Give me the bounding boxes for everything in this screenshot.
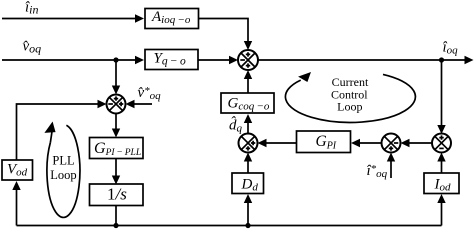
wire i*_oq into S3 bottom [390, 160, 392, 178]
summer S2 [239, 134, 258, 153]
node junction dot bottom-left [113, 223, 118, 228]
wire v_oq junction down to summer S5 top [115, 60, 117, 87]
node junction dot bottom-middle [245, 223, 250, 228]
block Y_q-o [145, 50, 198, 70]
wire A_ioq-o to summer S1 top [199, 19, 249, 43]
svg-text:îin: îin [25, 0, 39, 17]
block G_PI [297, 131, 351, 153]
block 1/s [90, 184, 144, 206]
wire S4 to summer S3 [409, 142, 433, 144]
block G_PI-PLL [90, 138, 144, 159]
wire Y_q-o to summer S1 left [198, 59, 230, 61]
wire bus up into D_d bottom [247, 202, 249, 226]
block I_od [424, 173, 459, 194]
wire G_PI to summer S2 right [266, 142, 297, 144]
wire D_d up into S2 bottom [247, 160, 249, 173]
wire V_od feedback to S5 left [17, 104, 99, 160]
summer S4 [432, 134, 451, 153]
wire G_PI-PLL to 1/s [115, 159, 117, 177]
block D_d [232, 173, 264, 194]
wire I_od up into S4 bottom [441, 160, 443, 173]
wire v_oq input line [2, 59, 136, 61]
wire G_coq-o to S1 bottom [247, 78, 249, 93]
wire i_oq down to summer S4 top [441, 60, 443, 126]
wire S1 to output i_oq [258, 59, 466, 61]
annotation PLL loop arrow [44, 120, 80, 217]
svg-text:Loop: Loop [50, 168, 76, 182]
annotation current control loop arrow [285, 69, 415, 123]
wire bus up into V_od bottom [16, 189, 18, 226]
wire v*_oq into S5 right [134, 103, 153, 105]
block V_od [2, 160, 33, 180]
node junction dot i_oq [439, 57, 444, 62]
wire S5 to G_PI-PLL [115, 114, 117, 130]
summer S3 [382, 134, 401, 153]
node junction dot on v_oq line [113, 57, 118, 62]
svg-text:Loop: Loop [337, 100, 362, 114]
svg-text:v̂oq: v̂oq [23, 39, 42, 56]
svg-text:PLL: PLL [52, 154, 74, 168]
wire i_in input line [2, 18, 136, 20]
summer S1 [238, 50, 258, 70]
wire S2 to G_coq-o [247, 123, 249, 134]
block A_ioq-o [145, 9, 199, 29]
block G_coq-o [221, 93, 274, 113]
svg-text:1/s: 1/s [107, 185, 127, 204]
wire S3 to G_PI [359, 142, 382, 144]
wire bottom bus [17, 225, 442, 227]
wire 1/s down to bottom bus [115, 206, 117, 226]
summer S5 (PLL) [107, 95, 126, 114]
wire bus up into I_od bottom [441, 202, 443, 226]
